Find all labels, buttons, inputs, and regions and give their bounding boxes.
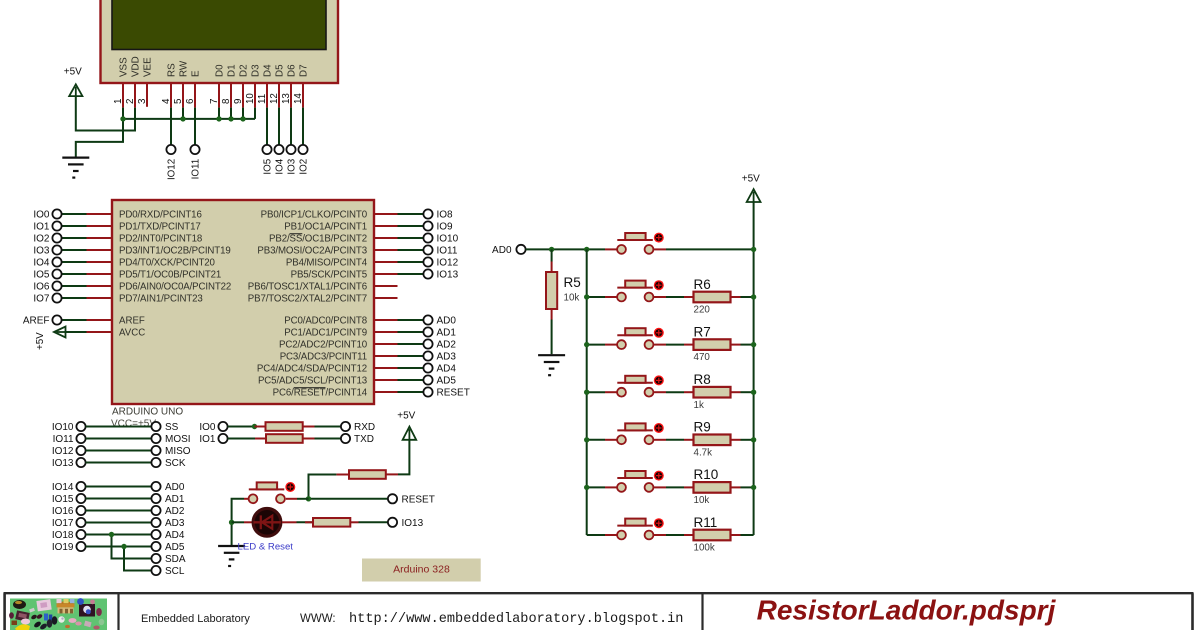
svg-text:AD4: AD4	[165, 530, 185, 541]
svg-text:IO16: IO16	[52, 506, 74, 517]
terminal IO4	[274, 145, 283, 154]
terminal AREF	[52, 315, 61, 324]
svg-text:R9: R9	[694, 420, 711, 435]
svg-text:PB1/OC1A/PCINT1: PB1/OC1A/PCINT1	[284, 222, 367, 233]
power +5V symbol (AVCC)	[54, 327, 66, 338]
push button SW4	[617, 375, 664, 396]
resistor R4 pin right	[350, 521, 358, 523]
U1 pin stub PD1	[87, 225, 113, 227]
resistor R9 pin left	[684, 439, 694, 441]
resistor R1 pin right	[303, 426, 315, 428]
U1 pin stub PC2	[374, 343, 398, 345]
U1 pin stub PB6	[374, 285, 398, 287]
terminal IO1	[52, 221, 61, 230]
junction AD5-SCL	[121, 544, 126, 549]
wire to terminal AREF	[62, 319, 87, 321]
terminal IO2	[52, 233, 61, 242]
LCD pin 14 stub	[302, 83, 304, 108]
wire IO14 to AD0	[86, 486, 152, 488]
wire R5 to ground	[551, 320, 553, 355]
resistor R6 pin left	[684, 296, 694, 298]
resistor R8 pin right	[731, 391, 741, 393]
svg-text:7: 7	[209, 99, 220, 104]
wire IO15 to AD1	[86, 498, 152, 500]
svg-text:SCK: SCK	[165, 458, 186, 469]
resistor R2	[266, 434, 303, 443]
ground symbol (LCD)	[62, 158, 89, 178]
LCD pin 8 stub	[230, 83, 232, 108]
terminal AD0	[151, 482, 160, 491]
svg-text:WWW:: WWW:	[300, 613, 336, 625]
wire to terminal IO0	[62, 213, 87, 215]
svg-text:PD1/TXD/PCINT17: PD1/TXD/PCINT17	[119, 222, 201, 233]
wire button to reset node	[297, 498, 309, 500]
svg-text:AD0: AD0	[437, 316, 457, 327]
terminal TXD	[341, 434, 350, 443]
wire D pin to terminal	[302, 108, 304, 145]
svg-text:IO0: IO0	[33, 210, 50, 221]
wire IO16 to AD2	[86, 510, 152, 512]
title block divider 1	[117, 593, 119, 630]
button pin right row 4	[653, 439, 666, 441]
svg-text:4.7k: 4.7k	[694, 447, 713, 458]
ladder +5V rail wire	[753, 202, 755, 535]
resistor R2 pin	[255, 438, 266, 440]
svg-text:+5V: +5V	[64, 67, 82, 78]
junction RW-bus	[180, 116, 185, 121]
junction rail row 2	[751, 342, 756, 347]
button pin right row 6	[653, 534, 666, 536]
wire to terminal IO9	[398, 225, 424, 227]
wire rail to LED	[232, 521, 244, 523]
resistor R3 pullup	[349, 470, 386, 479]
svg-text:IO2: IO2	[33, 234, 50, 245]
svg-text:IO2: IO2	[299, 159, 310, 175]
svg-text:IO3: IO3	[287, 158, 298, 174]
terminal IO13	[423, 269, 432, 278]
wire R4 to IO13	[359, 521, 388, 523]
svg-text:D5: D5	[275, 64, 286, 77]
svg-text:TXD: TXD	[354, 434, 374, 445]
resistor R7	[694, 339, 731, 350]
svg-text:+5V: +5V	[742, 174, 760, 185]
wire R5 top	[551, 249, 553, 261]
junction rail row 1	[751, 294, 756, 299]
wire R9 to rail	[741, 439, 754, 441]
svg-text:PB6/TOSC1/XTAL1/PCINT6: PB6/TOSC1/XTAL1/PCINT6	[248, 282, 367, 293]
junction D2-bus	[240, 116, 245, 121]
push button SW6	[617, 471, 664, 492]
svg-text:PC2/ADC2/PCINT10: PC2/ADC2/PCINT10	[279, 340, 368, 351]
resistor R11 pin right	[731, 534, 741, 536]
svg-text:IO18: IO18	[52, 530, 74, 541]
terminal IO8	[423, 209, 432, 218]
svg-text:IO9: IO9	[437, 222, 454, 233]
button pin left row 1	[605, 296, 617, 298]
wire AD5 to SCL	[124, 547, 151, 571]
wire bus to button row 3	[587, 391, 605, 393]
svg-text:RESET: RESET	[402, 494, 435, 505]
terminal IO15	[76, 494, 85, 503]
resistor R11 pin left	[684, 534, 694, 536]
U1 pin stub PC1	[374, 331, 398, 333]
terminal IO18	[76, 530, 85, 539]
svg-text:IO1: IO1	[33, 222, 50, 233]
wire IO12 to MISO	[86, 450, 152, 452]
terminal SS	[151, 422, 160, 431]
svg-text:AD3: AD3	[437, 352, 457, 363]
svg-text:IO14: IO14	[52, 482, 74, 493]
svg-text:9: 9	[233, 99, 244, 104]
junction reset node	[306, 496, 311, 501]
resistor R8	[694, 387, 731, 398]
wire R6 to rail	[741, 296, 754, 298]
svg-text:10k: 10k	[564, 293, 580, 304]
svg-text:PC5/ADC5/SCL/PCINT13: PC5/ADC5/SCL/PCINT13	[258, 376, 367, 387]
svg-text:LED & Reset: LED & Reset	[238, 541, 294, 552]
svg-text:D3: D3	[251, 64, 262, 77]
push button SW7	[617, 518, 664, 539]
svg-text:PB7/TOSC2/XTAL2/PCINT7: PB7/TOSC2/XTAL2/PCINT7	[248, 294, 367, 305]
title block left border	[3, 593, 6, 630]
terminal RESET	[423, 387, 432, 396]
svg-text:IO5: IO5	[33, 270, 50, 281]
LED D1 pin left	[244, 521, 252, 523]
junction LED-ground rail	[229, 520, 234, 525]
push button SW5	[617, 423, 664, 444]
terminal AD5	[423, 375, 432, 384]
resistor R8 pin left	[684, 391, 694, 393]
terminal IO1	[218, 434, 227, 443]
resistor R2 pin right	[303, 438, 315, 440]
svg-text:1: 1	[113, 99, 124, 104]
svg-text:PD3/INT1/OC2B/PCINT19: PD3/INT1/OC2B/PCINT19	[119, 246, 231, 257]
wire RW to bus	[182, 108, 184, 119]
svg-text:AD2: AD2	[437, 340, 457, 351]
wire IO0 to R1	[228, 426, 255, 428]
terminal AD5	[151, 542, 160, 551]
wire LED to R4	[297, 521, 314, 523]
junction bus row 4	[584, 437, 589, 442]
terminal IO9	[423, 221, 432, 230]
resistor R3 pin left	[336, 474, 349, 476]
svg-text:+5V: +5V	[35, 332, 46, 350]
wire R10 to rail	[741, 486, 754, 488]
svg-text:PD0/RXD/PCINT16: PD0/RXD/PCINT16	[119, 210, 202, 221]
button pin right row 1	[653, 296, 666, 298]
ground symbol (R5)	[538, 355, 565, 375]
U1 pin stub PB7	[374, 297, 398, 299]
wire R8 to rail	[741, 391, 754, 393]
wire IO13 to SCK	[86, 462, 152, 464]
svg-text:PD2/INT0/PCINT18: PD2/INT0/PCINT18	[119, 234, 202, 245]
terminal RESET	[388, 494, 397, 503]
svg-text:AREF: AREF	[119, 316, 145, 327]
resistor R10	[694, 482, 731, 493]
wire bus to button row 2	[587, 344, 605, 346]
junction rail row 0	[751, 247, 756, 252]
svg-text:14: 14	[293, 93, 304, 104]
U1 overline RESET	[294, 387, 326, 389]
svg-text:PB0/ICP1/CLKO/PCINT0: PB0/ICP1/CLKO/PCINT0	[261, 210, 368, 221]
wire button to R7	[666, 344, 684, 346]
MCU U1 ATmega328 body	[112, 200, 374, 404]
terminal IO11	[76, 434, 85, 443]
junction D1-bus	[228, 116, 233, 121]
svg-text:PC3/ADC3/PCINT11: PC3/ADC3/PCINT11	[280, 352, 367, 363]
wire to terminal AD0	[398, 319, 424, 321]
wire RS to terminal IO12	[170, 108, 172, 145]
wire D2 to bus	[242, 108, 244, 119]
terminal IO11	[190, 145, 199, 154]
svg-text:IO12: IO12	[52, 446, 74, 457]
U1 pin stub PD6	[87, 285, 113, 287]
svg-text:D0: D0	[215, 64, 226, 77]
LCD screen	[112, 0, 326, 50]
label box Arduino 328	[362, 559, 481, 582]
wire to terminal IO10	[398, 237, 424, 239]
U1 pin stub PD7	[87, 297, 113, 299]
svg-text:PC4/ADC4/SDA/PCINT12: PC4/ADC4/SDA/PCINT12	[257, 364, 367, 375]
svg-text:D4: D4	[263, 64, 274, 77]
wire to terminal IO6	[62, 285, 87, 287]
wire AD0 to ladder	[526, 248, 605, 250]
terminal AD4	[423, 363, 432, 372]
svg-text:IO12: IO12	[167, 159, 178, 180]
resistor R6	[694, 292, 731, 303]
svg-text:D1: D1	[227, 64, 238, 77]
svg-text:IO5: IO5	[263, 158, 274, 174]
junction bus row 1	[584, 294, 589, 299]
terminal MOSI	[151, 434, 160, 443]
LCD pin 6 stub	[194, 83, 196, 108]
terminal IO5	[262, 145, 271, 154]
svg-text:IO11: IO11	[191, 159, 202, 180]
svg-text:AD1: AD1	[165, 494, 185, 505]
svg-text:D2: D2	[239, 64, 250, 77]
svg-text:R7: R7	[694, 324, 711, 339]
terminal IO11	[423, 245, 432, 254]
title block right border	[1191, 593, 1194, 630]
wire IO19 to AD5	[86, 546, 152, 548]
U1 pin stub PC3	[374, 355, 398, 357]
button pin left row 0	[605, 248, 617, 250]
ground symbol (LED)	[218, 546, 245, 566]
svg-text:PB3/MOSI/OC2A/PCINT3: PB3/MOSI/OC2A/PCINT3	[257, 246, 367, 257]
wire to terminal IO13	[398, 273, 424, 275]
button pin left row 2	[605, 344, 617, 346]
U1 pin stub PC0	[374, 319, 398, 321]
junction D0-bus	[216, 116, 221, 121]
terminal IO0	[218, 422, 227, 431]
U1 pin stub PD3	[87, 249, 113, 251]
svg-text:PC6/RESET/PCINT14: PC6/RESET/PCINT14	[273, 388, 368, 399]
push button (reset)	[249, 482, 296, 503]
ladder left bus wire	[586, 249, 588, 535]
wire to terminal IO12	[398, 261, 424, 263]
U1 pin stub PD5	[87, 273, 113, 275]
svg-text:PD5/T1/OC0B/PCINT21: PD5/T1/OC0B/PCINT21	[119, 270, 221, 281]
wire to terminal IO1	[62, 225, 87, 227]
terminal IO16	[76, 506, 85, 515]
wire IO18 to AD4	[86, 534, 152, 536]
svg-text:AD2: AD2	[165, 506, 185, 517]
terminal AD2	[151, 506, 160, 515]
terminal SCK	[151, 458, 160, 467]
terminal IO12	[166, 145, 175, 154]
terminal AD2	[423, 339, 432, 348]
resistor R4	[313, 518, 350, 527]
svg-text:Embedded Laboratory: Embedded Laboratory	[141, 613, 250, 625]
terminal IO5	[52, 269, 61, 278]
svg-text:IO3: IO3	[33, 246, 50, 257]
svg-text:SCL: SCL	[165, 566, 185, 577]
U1 pin stub PB3	[374, 249, 398, 251]
svg-text:AD4: AD4	[437, 364, 457, 375]
svg-text:VSS: VSS	[119, 57, 130, 77]
svg-text:2: 2	[125, 99, 136, 104]
svg-text:12: 12	[269, 93, 280, 104]
resistor R1 pin	[255, 426, 266, 428]
svg-text:IO17: IO17	[52, 518, 74, 529]
U1 pin stub PC5	[374, 379, 398, 381]
svg-text:PB2/SS/OC1B/PCINT2: PB2/SS/OC1B/PCINT2	[269, 234, 367, 245]
svg-text:AD0: AD0	[165, 482, 185, 493]
resistor R5	[546, 272, 557, 309]
wire VSS down to bus	[122, 108, 124, 119]
svg-text:AD0: AD0	[492, 245, 512, 256]
wire button to R6	[666, 296, 684, 298]
resistor R9 pin right	[731, 439, 741, 441]
svg-text:PD4/T0/XCK/PCINT20: PD4/T0/XCK/PCINT20	[119, 258, 216, 269]
junction AD4-SDA	[109, 532, 114, 537]
title block divider 2	[701, 593, 703, 630]
terminal AD3	[423, 351, 432, 360]
button pin right row 5	[653, 486, 666, 488]
terminal IO13	[76, 458, 85, 467]
resistor R6 pin right	[731, 296, 741, 298]
terminal AD3	[151, 518, 160, 527]
wire to terminal IO7	[62, 297, 87, 299]
svg-text:IO10: IO10	[52, 422, 74, 433]
U1 pin stub PC4	[374, 367, 398, 369]
svg-text:PC1/ADC1/PCINT9: PC1/ADC1/PCINT9	[284, 328, 367, 339]
svg-text:VDD: VDD	[131, 56, 142, 77]
U1 pin stub PD2	[87, 237, 113, 239]
wire VSS to ground	[76, 119, 123, 157]
svg-text:R10: R10	[694, 467, 719, 482]
svg-text:D6: D6	[287, 64, 298, 77]
wire bus to button row 1	[587, 296, 605, 298]
LCD pin 10 stub	[254, 83, 256, 108]
resistor R4 pin left	[305, 521, 313, 523]
terminal IO7	[52, 293, 61, 302]
resistor R10 pin right	[731, 486, 741, 488]
wire bus to button row 4	[587, 439, 605, 441]
terminal AD0 (ladder)	[516, 245, 525, 254]
svg-text:AD3: AD3	[165, 518, 185, 529]
svg-text:PC0/ADC0/PCINT8: PC0/ADC0/PCINT8	[284, 316, 367, 327]
wire AD4 to SDA	[112, 535, 152, 559]
svg-text:8: 8	[221, 98, 232, 104]
wire IO10 to SS	[86, 426, 152, 428]
LCD pin 11 stub	[266, 83, 268, 108]
terminal AD1	[151, 494, 160, 503]
terminal IO10	[423, 233, 432, 242]
svg-text:11: 11	[257, 94, 268, 104]
LED D1	[253, 508, 281, 536]
LCD pin 1 stub	[122, 83, 124, 108]
svg-text:IO8: IO8	[437, 210, 454, 221]
resistor R5 pin bottom	[551, 309, 553, 320]
ground bus wire	[123, 118, 255, 120]
svg-text:Arduino 328: Arduino 328	[393, 564, 450, 576]
junction R5 top	[549, 247, 554, 252]
terminal IO0	[52, 209, 61, 218]
U1 pin stub AREF	[87, 319, 113, 321]
svg-text:IO13: IO13	[52, 458, 74, 469]
resistor R9	[694, 435, 731, 446]
wire node to RESET terminal	[309, 498, 388, 500]
svg-text:PD7/AIN1/PCINT23: PD7/AIN1/PCINT23	[119, 294, 203, 305]
wire to +5V arrow AVCC	[66, 331, 87, 333]
U1 pin stub PD0	[87, 213, 113, 215]
svg-text:13: 13	[281, 93, 292, 104]
U1 pin stub PD4	[87, 261, 113, 263]
push button SW2	[617, 280, 664, 301]
svg-text:3: 3	[137, 98, 148, 104]
button pin left	[244, 498, 249, 500]
svg-text:SDA: SDA	[165, 554, 186, 565]
svg-text:SS: SS	[165, 422, 179, 433]
junction VSS-bus	[120, 116, 125, 121]
LCD pin 4 stub	[170, 83, 172, 108]
LCD pin 7 stub	[218, 83, 220, 108]
wire bus to button row 6	[587, 534, 605, 536]
wire bus to button row 5	[587, 486, 605, 488]
wire R11 to rail	[741, 534, 754, 536]
terminal AD0	[423, 315, 432, 324]
svg-text:R5: R5	[564, 275, 581, 290]
svg-text:IO6: IO6	[33, 282, 50, 293]
svg-text:IO1: IO1	[199, 434, 216, 445]
svg-text:VEE: VEE	[143, 57, 154, 77]
svg-text:D7: D7	[299, 64, 310, 77]
wire to terminal IO8	[398, 213, 424, 215]
wire to terminal IO2	[62, 237, 87, 239]
resistor R1	[266, 422, 303, 431]
U1 pin stub PB4	[374, 261, 398, 263]
wire D3 to bus	[254, 108, 256, 119]
terminal IO12	[423, 257, 432, 266]
wire IO17 to AD3	[86, 522, 152, 524]
U1 pin stub PC6	[374, 391, 398, 393]
U1 pin stub PB2	[374, 237, 398, 239]
LCD pin 9 stub	[242, 83, 244, 108]
junction IO0 wire	[252, 424, 257, 429]
junction bus row 3	[584, 390, 589, 395]
svg-text:IO11: IO11	[53, 434, 74, 445]
wire to terminal IO4	[62, 261, 87, 263]
terminal IO17	[76, 518, 85, 527]
wire button to R8	[666, 391, 684, 393]
wire to terminal AD3	[398, 355, 424, 357]
svg-text:IO11: IO11	[437, 246, 458, 257]
svg-text:470: 470	[694, 352, 711, 363]
wire to terminal IO3	[62, 249, 87, 251]
svg-text:10: 10	[245, 93, 256, 104]
button pin right row 0	[653, 248, 666, 250]
